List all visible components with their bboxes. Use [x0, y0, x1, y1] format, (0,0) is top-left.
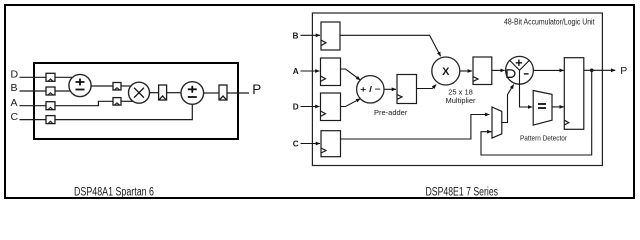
pre-adder circle DSP48E1	[357, 76, 384, 103]
wire multiplier to MREG	[460, 70, 472, 72]
svg-text:P: P	[620, 65, 627, 77]
ALU circle	[506, 56, 534, 84]
register AREG	[321, 58, 341, 86]
register BREG	[321, 22, 340, 50]
post-adder circle DSP48A1	[181, 82, 204, 105]
wire PREG to P output	[584, 69, 616, 71]
svg-text:DSP48A1 Spartan 6: DSP48A1 Spartan 6	[74, 187, 154, 199]
wire CREG to mux top input	[341, 115, 490, 140]
comparator trapezoid =	[533, 91, 552, 126]
wire ALU down to comparator	[520, 84, 533, 107]
wire AREG to pre-adder	[341, 69, 361, 80]
wire BREG to multiplier	[340, 35, 441, 56]
wire D0 to pre-adder	[55, 76, 72, 78]
svg-text:Multiplier: Multiplier	[445, 96, 476, 105]
register ADREG	[397, 75, 417, 104]
svg-text:A: A	[11, 97, 18, 109]
mux trapezoid	[492, 107, 502, 138]
wire C input to post-adder	[20, 104, 193, 119]
register B0	[46, 87, 55, 95]
multiplier circle DSP48A1	[129, 82, 150, 103]
svg-text:D: D	[293, 102, 299, 111]
svg-text:Pre-adder: Pre-adder	[374, 108, 408, 117]
multiplier X cross	[134, 88, 144, 98]
DSP48A1 slice box	[34, 63, 238, 139]
svg-text:P: P	[252, 82, 261, 97]
wire multiplier to register M1	[150, 92, 159, 94]
register M0 (pre-adder output)	[113, 83, 121, 91]
wire mux output to ALU	[502, 85, 514, 123]
register CREG	[321, 131, 341, 157]
wire feedback from P to mux bottom input	[481, 70, 592, 155]
register A0	[46, 102, 55, 110]
multiplier circle DSP48E1	[432, 57, 460, 85]
register MREG	[473, 57, 492, 85]
pre-adder circle DSP48A1	[69, 74, 91, 96]
svg-text:+ / −: + / −	[360, 84, 381, 94]
svg-text:D: D	[11, 69, 19, 81]
register P0 (output register)	[219, 85, 227, 100]
wire D input arrow	[301, 106, 320, 108]
ALU logic gate symbol	[507, 70, 515, 77]
wire A input arrow	[301, 70, 320, 72]
ALU sector divider	[510, 60, 530, 84]
wire B0 to pre-adder	[55, 90, 72, 92]
pre-adder plus-minus symbol	[76, 79, 85, 90]
svg-text:X: X	[442, 66, 450, 78]
svg-text:C: C	[11, 111, 19, 123]
register M1 (multiplier output)	[159, 85, 167, 100]
register PREG	[564, 58, 584, 130]
wire M1 to post-adder	[167, 92, 181, 94]
ALU minus symbol	[524, 73, 529, 75]
wire comparator to PREG	[552, 106, 564, 108]
register C0	[46, 116, 55, 124]
wire B input	[20, 90, 47, 92]
wire MREG to ALU	[492, 69, 505, 71]
wire P0 to output P	[227, 92, 249, 94]
register D0	[46, 73, 55, 81]
wire pre-adder to ADREG	[384, 88, 396, 90]
ALU plus symbol	[516, 60, 522, 66]
wire pre-adder to register M0	[91, 85, 113, 87]
wire DREG to pre-adder	[341, 99, 361, 107]
svg-text:B: B	[11, 82, 18, 94]
svg-text:DSP48E1 7 Series: DSP48E1 7 Series	[426, 187, 499, 199]
svg-text:Pattern Detector: Pattern Detector	[520, 134, 567, 143]
svg-text:C: C	[293, 139, 299, 148]
wire M0 to multiplier	[121, 85, 132, 87]
wire C input arrow	[301, 143, 321, 145]
comparator = symbol	[538, 104, 546, 108]
junction dot P feedback	[590, 69, 594, 73]
register DREG	[321, 93, 341, 121]
wire A1 to multiplier	[121, 100, 134, 102]
wire D input	[20, 76, 47, 78]
wire A input with jog	[20, 105, 47, 107]
wire B input arrow	[301, 34, 321, 36]
wire ALU to PREG	[533, 69, 564, 71]
register A1	[113, 98, 121, 106]
svg-text:48-Bit Accumulator/Logic Unit: 48-Bit Accumulator/Logic Unit	[504, 18, 595, 27]
post-adder plus-minus symbol	[188, 86, 197, 97]
wire post-adder to register P0	[204, 92, 219, 94]
wire A0 jog to register A1	[55, 101, 113, 105]
DSP48E1 slice box	[312, 13, 602, 166]
wire ADREG to multiplier	[417, 85, 437, 89]
svg-text:A: A	[293, 67, 299, 76]
svg-text:B: B	[293, 31, 299, 40]
